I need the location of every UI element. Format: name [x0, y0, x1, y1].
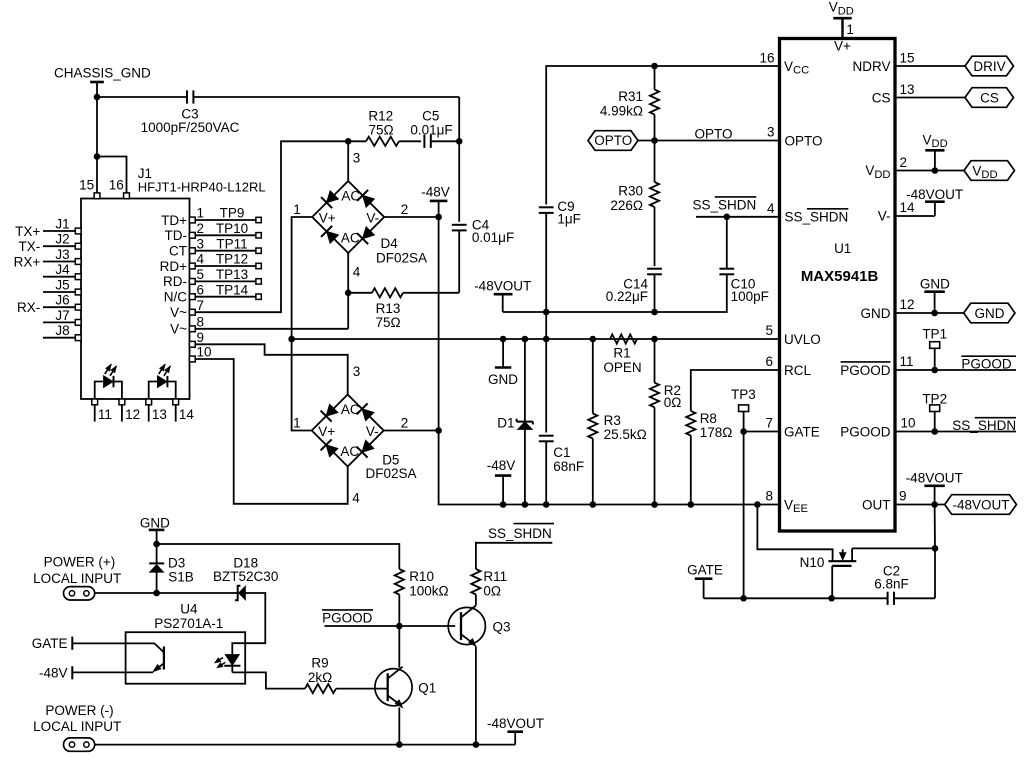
- svg-text:R10: R10: [409, 569, 434, 584]
- pin 3 J1 right: [169, 236, 204, 258]
- svg-text:PGOOD: PGOOD: [840, 424, 891, 439]
- svg-text:16: 16: [759, 51, 774, 66]
- optocoupler U4 box: [126, 632, 246, 684]
- wire -48V vertical rail: [438, 217, 440, 431]
- svg-text:TP11: TP11: [216, 236, 247, 251]
- svg-text:V+: V+: [319, 211, 336, 226]
- junction GND mid: [500, 336, 507, 343]
- svg-text:J7: J7: [55, 308, 69, 323]
- svg-text:0.22μF: 0.22μF: [606, 289, 648, 304]
- wire SS_SHDN pin4: [696, 216, 780, 218]
- svg-text:13: 13: [900, 82, 915, 97]
- svg-text:TP13: TP13: [216, 267, 248, 282]
- power GATE symbol: [687, 563, 723, 599]
- svg-text:TP3: TP3: [731, 387, 756, 402]
- svg-text:14: 14: [900, 200, 916, 215]
- svg-text:U1: U1: [834, 241, 851, 256]
- wire VCC rail: [546, 66, 779, 205]
- resistor R2: [650, 339, 682, 505]
- svg-text:TX-: TX-: [19, 239, 41, 254]
- svg-text:3: 3: [197, 236, 205, 251]
- pin 10 PGOOD: [840, 416, 915, 440]
- svg-text:AC: AC: [341, 231, 360, 246]
- svg-text:AC: AC: [341, 189, 360, 204]
- node CHASSIS_GND label: [54, 66, 151, 81]
- pin 8 VEE: [765, 489, 807, 516]
- svg-text:1μF: 1μF: [557, 211, 581, 226]
- power GND symbol right: [920, 276, 950, 313]
- power -48VOUT symbol mid: [474, 278, 531, 312]
- svg-text:R31: R31: [618, 89, 643, 104]
- wire D18 to U4 LED: [232, 593, 265, 655]
- pin 15 top: [79, 178, 100, 199]
- svg-text:7: 7: [197, 298, 205, 313]
- pin GATE input: [32, 636, 73, 651]
- resistor R13: [348, 288, 459, 330]
- svg-text:J6: J6: [55, 293, 69, 308]
- wire -48V rail to VEE rail: [439, 431, 780, 505]
- wire OPTO to pin3: [638, 126, 780, 141]
- pin 9 OUT: [862, 489, 907, 513]
- svg-text:U4: U4: [180, 602, 198, 617]
- net label SS_SHDN right: [952, 418, 1016, 433]
- svg-text:12: 12: [125, 407, 140, 422]
- svg-text:DF02SA: DF02SA: [376, 251, 427, 266]
- capacitor C9: [539, 199, 581, 339]
- svg-text:PGOOD: PGOOD: [840, 363, 891, 378]
- connector J1 box: [81, 199, 190, 400]
- junction D1 bottom: [522, 501, 529, 508]
- svg-text:75Ω: 75Ω: [375, 315, 400, 330]
- pin J8 left: [43, 323, 81, 340]
- wire NDRV to DRIV: [895, 65, 965, 67]
- pin J1 left: [15, 216, 81, 238]
- junction R2 top: [651, 336, 658, 343]
- pin 13 J1 bottom: [146, 399, 167, 422]
- svg-text:SS_SHDN: SS_SHDN: [693, 198, 757, 213]
- pin 4 J1 right: [160, 252, 205, 274]
- svg-text:R30: R30: [618, 184, 643, 199]
- junction TP1: [931, 367, 938, 374]
- pin J6 left: [17, 293, 81, 315]
- net label SS_SHDN bottom: [488, 524, 554, 541]
- svg-text:4: 4: [197, 252, 205, 267]
- svg-text:-48VOUT: -48VOUT: [952, 497, 1009, 512]
- wire GATE to U4: [72, 642, 154, 644]
- svg-text:PGOOD: PGOOD: [961, 356, 1012, 371]
- junction R31 top: [651, 63, 658, 70]
- svg-text:0.01μF: 0.01μF: [410, 123, 452, 138]
- junction Q3 emitter: [473, 741, 480, 748]
- diode bridge D4: [293, 181, 427, 266]
- svg-text:SS_SHDN: SS_SHDN: [785, 210, 849, 225]
- svg-text:4.99kΩ: 4.99kΩ: [600, 103, 643, 118]
- svg-text:R11: R11: [483, 569, 507, 584]
- pin 12 J1 bottom: [119, 399, 140, 422]
- wire U4 LED to R9: [232, 672, 305, 688]
- svg-text:J2: J2: [55, 232, 69, 247]
- power -48VOUT symbol OUT: [906, 470, 963, 504]
- wire pin9 to D5 node3: [195, 344, 360, 394]
- connector POWER(-) input: [64, 738, 95, 751]
- svg-text:TP12: TP12: [216, 252, 248, 267]
- wire GATE pin7: [744, 431, 780, 433]
- svg-text:2: 2: [197, 221, 205, 236]
- pin 11 PGOODb: [840, 354, 913, 378]
- resistor R9: [305, 655, 388, 693]
- svg-text:3: 3: [767, 125, 775, 140]
- diode D3: [149, 544, 194, 593]
- pin 9 J1 right: [189, 330, 204, 347]
- pin J3 left: [14, 247, 81, 269]
- svg-text:V+: V+: [318, 424, 335, 439]
- wire GATE rail: [704, 597, 935, 599]
- svg-text:C5: C5: [422, 109, 439, 124]
- svg-text:8: 8: [765, 489, 773, 504]
- net label PGOODb right: [961, 356, 1016, 371]
- junction Q1 emitter: [396, 741, 403, 748]
- flag VDD: [964, 161, 1015, 182]
- junction C9 bottom rail: [543, 309, 550, 316]
- chassis ground bar symbol: [90, 82, 104, 97]
- svg-text:V~: V~: [170, 305, 187, 320]
- svg-text:1000pF/250VAC: 1000pF/250VAC: [141, 120, 240, 135]
- junction -48V mid: [500, 501, 507, 508]
- svg-text:1: 1: [293, 415, 301, 430]
- wire chassis to C3: [97, 96, 187, 98]
- svg-text:5: 5: [765, 323, 773, 338]
- svg-text:4: 4: [353, 264, 361, 279]
- pin 10 J1 right: [189, 345, 211, 362]
- svg-text:RD-: RD-: [163, 274, 187, 289]
- label U4: [154, 602, 223, 632]
- power VDD symbol right: [923, 132, 948, 170]
- LED U4: [215, 655, 241, 673]
- test point TP11: [195, 236, 261, 253]
- svg-text:R8: R8: [700, 411, 717, 426]
- svg-text:LOCAL INPUT: LOCAL INPUT: [33, 719, 121, 734]
- wire Q3 collector: [475, 595, 477, 606]
- svg-text:OPEN: OPEN: [603, 360, 641, 375]
- svg-text:CT: CT: [169, 244, 187, 259]
- pin 5 UVLO: [765, 323, 820, 347]
- svg-text:5: 5: [197, 267, 205, 282]
- junction C1 top: [543, 336, 550, 343]
- svg-text:V-: V-: [878, 208, 891, 223]
- svg-text:GND: GND: [920, 276, 950, 291]
- junction UVLO rail start: [288, 336, 295, 343]
- pin 8 J1 right: [170, 314, 204, 336]
- ground GND symbol bottom: [140, 516, 170, 544]
- svg-text:AC: AC: [341, 402, 360, 417]
- net label PGOODb bottom: [322, 610, 373, 626]
- svg-text:R13: R13: [376, 301, 401, 316]
- svg-text:PGOOD: PGOOD: [322, 610, 373, 625]
- svg-text:R12: R12: [368, 109, 393, 124]
- flag -48VOUT: [945, 495, 1017, 515]
- svg-text:TD-: TD-: [165, 228, 188, 243]
- svg-text:OPTO: OPTO: [785, 133, 823, 148]
- test point TP1: [922, 327, 947, 370]
- svg-text:-48VOUT: -48VOUT: [906, 470, 963, 485]
- wire pin7 to D4 node3: [195, 141, 345, 312]
- wire D5 node2: [384, 430, 439, 432]
- LED2 inside J1: [149, 364, 176, 399]
- pin J7 left: [43, 308, 81, 326]
- net label SS_SHDN pin4: [693, 197, 757, 213]
- svg-text:GND: GND: [488, 372, 518, 387]
- pin 16 VCC: [759, 51, 809, 77]
- svg-text:J3: J3: [55, 247, 69, 262]
- wire CS to flag: [895, 97, 965, 99]
- svg-text:OPTO: OPTO: [695, 126, 733, 141]
- junction R3 top: [590, 336, 597, 343]
- svg-text:GND: GND: [975, 306, 1005, 321]
- junction D1 top: [522, 336, 529, 343]
- power -48V symbol mid: [487, 458, 516, 504]
- svg-text:V-: V-: [366, 211, 379, 226]
- svg-text:9: 9: [899, 489, 907, 504]
- label U1: [834, 241, 851, 256]
- test point TP14: [195, 282, 261, 299]
- junction C14 bottom: [651, 309, 658, 316]
- svg-text:POWER (-): POWER (-): [45, 703, 113, 718]
- wire Q1 collector: [398, 626, 400, 668]
- connector POWER(+) input: [64, 587, 95, 600]
- svg-text:HFJT1-HRP40-L12RL: HFJT1-HRP40-L12RL: [138, 180, 266, 195]
- svg-text:C1: C1: [553, 445, 570, 460]
- svg-text:RX+: RX+: [14, 254, 41, 269]
- wire Q3 emitter: [475, 646, 477, 744]
- flag DRIV: [965, 56, 1014, 76]
- flag GND: [964, 303, 1015, 323]
- junction TP2: [931, 428, 938, 435]
- svg-text:226Ω: 226Ω: [610, 198, 643, 213]
- capacitor C3: [141, 90, 240, 135]
- svg-text:4: 4: [767, 201, 775, 216]
- junction R3 bottom: [590, 501, 597, 508]
- label POWER(-): [33, 703, 121, 734]
- svg-text:1: 1: [197, 206, 205, 221]
- svg-text:6.8nF: 6.8nF: [874, 577, 909, 592]
- junction D3 anode: [153, 590, 160, 597]
- pin 7 GATE: [765, 416, 819, 440]
- svg-text:Q3: Q3: [493, 619, 511, 634]
- svg-text:GND: GND: [140, 516, 170, 531]
- resistor R31: [600, 66, 659, 141]
- svg-text:DRIV: DRIV: [973, 59, 1005, 74]
- svg-text:75Ω: 75Ω: [368, 123, 393, 138]
- svg-text:R3: R3: [604, 413, 621, 428]
- svg-text:-48VOUT: -48VOUT: [474, 278, 531, 293]
- junction R2 bottom: [651, 501, 658, 508]
- label J1 refdes: [138, 166, 266, 195]
- resistor R3: [588, 339, 647, 505]
- svg-text:11: 11: [900, 354, 914, 369]
- junction N10 drain: [932, 545, 939, 552]
- wire UVLO rail: [292, 338, 780, 340]
- svg-text:C3: C3: [181, 106, 198, 121]
- pin 16 top: [109, 178, 130, 199]
- junction VDD: [932, 167, 939, 174]
- power -48VOUT symbol bottom: [487, 716, 544, 745]
- label POWER(+): [33, 555, 121, 586]
- flag CS: [965, 88, 1014, 108]
- capacitor C4: [452, 141, 514, 292]
- svg-text:-48V: -48V: [39, 665, 68, 680]
- wire pin10 to D5 node4: [195, 359, 360, 506]
- svg-text:POWER (+): POWER (+): [44, 555, 116, 570]
- power -48VOUT symbol pin14: [906, 187, 963, 216]
- wire D4 node4: [348, 253, 361, 329]
- svg-text:2kΩ: 2kΩ: [308, 670, 332, 685]
- svg-text:3: 3: [353, 364, 361, 379]
- capacitor C2: [874, 563, 909, 605]
- svg-text:GATE: GATE: [32, 636, 68, 651]
- svg-text:68nF: 68nF: [553, 459, 584, 474]
- svg-text:R9: R9: [311, 655, 328, 670]
- junction D4 node3: [345, 138, 352, 145]
- svg-text:OPTO: OPTO: [594, 133, 632, 148]
- svg-text:GND: GND: [861, 306, 891, 321]
- svg-text:10: 10: [901, 416, 916, 431]
- svg-text:D3: D3: [168, 556, 185, 571]
- svg-text:N10: N10: [800, 555, 825, 570]
- junction C1 bottom: [543, 501, 550, 508]
- svg-text:9: 9: [197, 330, 205, 345]
- wire Q1 emitter: [398, 707, 400, 744]
- svg-text:R1: R1: [613, 346, 630, 361]
- svg-text:TP9: TP9: [220, 206, 245, 221]
- svg-text:NDRV: NDRV: [852, 59, 890, 74]
- svg-text:Q1: Q1: [418, 681, 436, 696]
- pin 5 J1 right: [163, 267, 204, 289]
- ground GND symbol mid: [488, 339, 518, 387]
- svg-text:D4: D4: [381, 236, 399, 251]
- pin 14 V-: [878, 200, 915, 223]
- diode bridge D5: [293, 395, 416, 482]
- pin 15 NDRV: [852, 51, 914, 74]
- svg-text:SS_SHDN: SS_SHDN: [488, 526, 552, 541]
- pin V+ label: [834, 39, 851, 54]
- svg-text:TD+: TD+: [161, 213, 187, 228]
- wire pin8 to D4 node4: [195, 328, 348, 330]
- pin J2 left: [19, 232, 82, 254]
- svg-text:D1: D1: [497, 416, 514, 431]
- pin 11 J1 bottom: [92, 399, 112, 422]
- IC U1 MAX5941B box: [780, 39, 896, 532]
- svg-text:MAX5941B: MAX5941B: [801, 268, 879, 285]
- svg-text:GATE: GATE: [687, 563, 723, 578]
- svg-text:TX+: TX+: [15, 224, 40, 239]
- svg-text:11: 11: [98, 407, 112, 422]
- svg-text:4: 4: [352, 491, 360, 506]
- capacitor C1: [539, 339, 584, 505]
- svg-text:2: 2: [401, 202, 409, 217]
- svg-text:BZT52C30: BZT52C30: [213, 569, 278, 584]
- svg-text:J8: J8: [55, 323, 69, 338]
- svg-text:OUT: OUT: [862, 497, 891, 512]
- test point TP2: [922, 392, 947, 432]
- phototransistor U4: [153, 643, 164, 671]
- wire VEE to N10 source: [757, 505, 832, 561]
- svg-text:6: 6: [197, 282, 205, 297]
- svg-text:15: 15: [79, 178, 94, 193]
- junction PGOOD Q1: [396, 623, 403, 630]
- junction D4 node4: [345, 290, 352, 297]
- svg-text:S1B: S1B: [168, 570, 194, 585]
- svg-text:UVLO: UVLO: [784, 332, 821, 347]
- svg-text:SS_SHDN: SS_SHDN: [952, 418, 1016, 433]
- svg-text:J5: J5: [55, 277, 69, 292]
- wire TP3 down to GATE rail: [743, 432, 745, 599]
- pin 1 J1 right: [161, 206, 204, 228]
- pin J5 left: [43, 277, 81, 295]
- resistor R12: [348, 109, 421, 146]
- test point TP10: [195, 221, 261, 238]
- power VDD symbol top: [829, 0, 854, 38]
- svg-text:TP1: TP1: [922, 327, 947, 342]
- svg-text:J1: J1: [55, 216, 69, 231]
- junction GND right: [931, 310, 938, 317]
- svg-text:-48V: -48V: [421, 184, 450, 199]
- junction pin15: [94, 153, 101, 160]
- svg-text:LOCAL INPUT: LOCAL INPUT: [33, 571, 121, 586]
- svg-text:DF02SA: DF02SA: [366, 466, 417, 481]
- pin 7 J1 right: [170, 298, 204, 320]
- svg-text:-48VOUT: -48VOUT: [906, 187, 963, 202]
- svg-text:N/C: N/C: [164, 290, 188, 305]
- pin J4 left: [43, 262, 81, 279]
- pin 2 VDD: [865, 155, 907, 181]
- junction C10 top: [724, 214, 731, 221]
- wire -48V to U4: [72, 671, 153, 673]
- svg-text:0Ω: 0Ω: [483, 583, 501, 598]
- junction C5 right: [456, 138, 463, 145]
- diode D1: [497, 339, 533, 505]
- test point TP12: [195, 252, 261, 269]
- junction OPTO: [651, 137, 658, 144]
- test point TP9: [195, 206, 261, 223]
- wire RCL pin6: [691, 370, 780, 411]
- wire OUT down to drain: [934, 505, 936, 549]
- wire POWER+ to D18: [95, 592, 238, 594]
- svg-text:PS2701A-1: PS2701A-1: [154, 616, 223, 631]
- wire to pin16: [97, 157, 127, 194]
- resistor R30: [610, 141, 659, 267]
- svg-text:-48VOUT: -48VOUT: [487, 716, 544, 731]
- pin 3 OPTO: [767, 125, 823, 149]
- wire D4 node3 stub: [348, 141, 360, 181]
- wire PGOOD pin10: [895, 431, 1016, 433]
- junction N10 gate: [828, 595, 835, 602]
- svg-text:2: 2: [900, 155, 908, 170]
- svg-text:3: 3: [353, 151, 361, 166]
- svg-text:1: 1: [293, 202, 301, 217]
- wire C3 to corner x459: [194, 97, 460, 141]
- power -48V symbol (D4): [421, 184, 450, 217]
- svg-text:GATE: GATE: [784, 424, 820, 439]
- transistor Q3: [448, 606, 510, 647]
- svg-text:CHASSIS_GND: CHASSIS_GND: [54, 66, 151, 81]
- svg-text:178Ω: 178Ω: [700, 425, 733, 440]
- svg-text:RX-: RX-: [17, 300, 40, 315]
- pin 6 J1 right: [164, 282, 204, 304]
- label MAX5941B: [801, 268, 879, 285]
- junction VEE pin8: [754, 501, 761, 508]
- svg-text:TP10: TP10: [216, 221, 248, 236]
- test point TP3: [731, 387, 756, 431]
